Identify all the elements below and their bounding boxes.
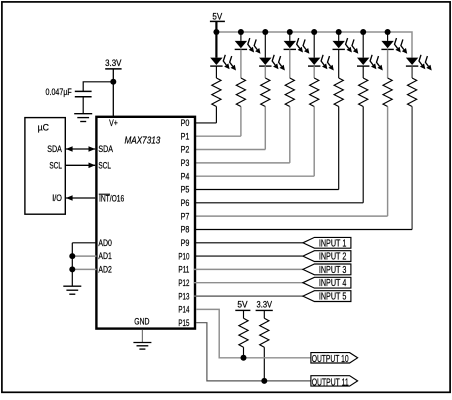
svg-text:P14: P14 — [178, 305, 189, 315]
svg-text:INPUT 1: INPUT 1 — [319, 238, 347, 249]
svg-text:SCL: SCL — [49, 160, 62, 170]
svg-text:I/O: I/O — [52, 193, 62, 203]
svg-text:INPUT 4: INPUT 4 — [319, 278, 347, 289]
svg-text:0.047µF: 0.047µF — [46, 87, 73, 97]
svg-text:INPUT 3: INPUT 3 — [319, 265, 347, 276]
svg-text:AD2: AD2 — [98, 265, 112, 275]
svg-text:V+: V+ — [109, 118, 118, 128]
svg-text:µC: µC — [38, 123, 50, 133]
svg-text:P1: P1 — [181, 131, 190, 141]
svg-text:GND: GND — [134, 317, 150, 327]
svg-text:OUTPUT 10: OUTPUT 10 — [312, 354, 349, 365]
svg-text:P6: P6 — [181, 198, 190, 208]
svg-text:P5: P5 — [181, 185, 190, 195]
svg-text:AD0: AD0 — [98, 238, 112, 248]
svg-text:AD1: AD1 — [98, 251, 112, 261]
svg-text:INPUT 2: INPUT 2 — [319, 252, 347, 263]
svg-text:5V: 5V — [237, 300, 247, 310]
svg-text:P9: P9 — [181, 238, 190, 248]
svg-text:P3: P3 — [181, 158, 190, 168]
svg-text:P15: P15 — [178, 318, 189, 328]
svg-text:OUTPUT 11: OUTPUT 11 — [312, 377, 349, 388]
svg-text:MAX7313: MAX7313 — [125, 135, 161, 147]
svg-text:P0: P0 — [181, 118, 190, 128]
svg-text:P2: P2 — [181, 145, 190, 155]
svg-text:P8: P8 — [181, 225, 190, 235]
svg-text:SDA: SDA — [98, 144, 113, 154]
svg-text:P11: P11 — [178, 265, 189, 275]
svg-text:SCL: SCL — [98, 160, 111, 170]
svg-text:INT/O16: INT/O16 — [99, 193, 124, 203]
svg-text:3.3V: 3.3V — [257, 300, 273, 310]
svg-text:3.3V: 3.3V — [105, 58, 121, 68]
svg-text:P10: P10 — [178, 251, 189, 261]
svg-text:P7: P7 — [181, 211, 190, 221]
svg-text:P13: P13 — [178, 291, 189, 301]
svg-text:INPUT 5: INPUT 5 — [319, 292, 347, 303]
svg-text:5V: 5V — [212, 11, 222, 21]
svg-text:SDA: SDA — [47, 144, 62, 154]
svg-text:P4: P4 — [181, 171, 190, 181]
svg-text:P12: P12 — [178, 278, 189, 288]
